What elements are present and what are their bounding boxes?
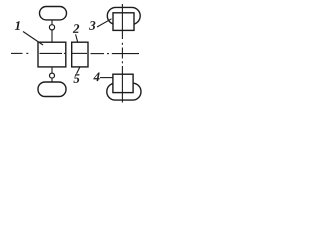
- wire circle to rear-left wheel: [51, 78, 53, 82]
- front-left wheel (stadium): [40, 7, 67, 20]
- horizontal axle centerline (dash-dot): [11, 52, 139, 54]
- box 1 (engine): [38, 42, 66, 67]
- label 4: [93, 73, 99, 82]
- leader line 1: [23, 32, 43, 46]
- label 1: [15, 21, 20, 30]
- box 2 (gearbox): [72, 42, 88, 67]
- right-top hub rect: [113, 13, 134, 31]
- right wheel shaft vertical centerline: [121, 4, 123, 103]
- right-bottom hub rect: [113, 74, 133, 92]
- wire box 1 to bottom circle: [51, 67, 53, 73]
- label 2: [73, 24, 79, 33]
- leader line 3: [97, 19, 112, 27]
- right-top tyre (stadium): [107, 7, 140, 24]
- wire circle to box 1: [51, 30, 53, 42]
- joint circle bottom: [50, 73, 55, 78]
- leader line 2: [76, 34, 78, 41]
- label 3: [89, 21, 95, 30]
- leader line 5: [77, 67, 81, 74]
- leader line 4: [100, 77, 113, 79]
- rear-left wheel (stadium): [38, 82, 66, 97]
- wire stadium to shaft circle: [51, 20, 53, 25]
- joint circle top: [49, 25, 54, 30]
- label 5: [73, 74, 79, 83]
- right-bottom tyre (stadium): [107, 83, 141, 100]
